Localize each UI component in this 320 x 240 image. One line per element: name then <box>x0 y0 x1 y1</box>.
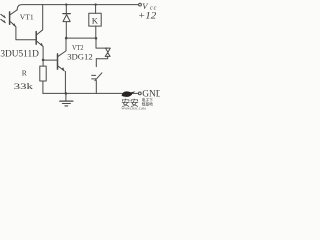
svg-text:+12: +12 <box>138 12 157 22</box>
svg-text:VT1: VT1 <box>20 13 34 22</box>
svg-text:cc: cc <box>150 5 157 11</box>
svg-text:3DU511D: 3DU511D <box>0 49 39 59</box>
svg-text:WWW.DZSC.COM: WWW.DZSC.COM <box>121 106 146 110</box>
svg-text:33k: 33k <box>14 81 34 91</box>
svg-text:3DG12: 3DG12 <box>67 52 93 62</box>
svg-text:K: K <box>92 15 99 25</box>
